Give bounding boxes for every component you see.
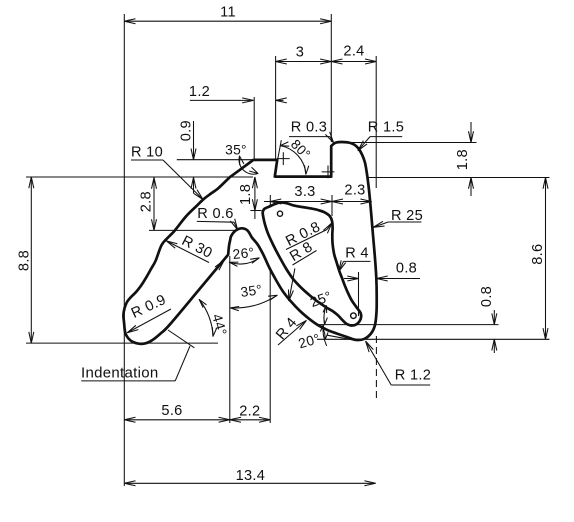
angle 20 bbox=[323, 325, 327, 346]
extension line x=331.3 bbox=[330, 14, 332, 142]
svg-text:Indentation: Indentation bbox=[81, 365, 159, 382]
main profile outline bbox=[123, 142, 376, 344]
svg-text:1.2: 1.2 bbox=[189, 84, 210, 100]
center circle 1 bbox=[277, 211, 282, 216]
extension line x=270.2 bbox=[269, 269, 271, 423]
dim 13.4 bbox=[124, 482, 375, 484]
extension line left x=124.3 bbox=[123, 14, 125, 486]
dim 5.6 and 2.2 bbox=[124, 419, 270, 421]
extension line x=332.0 bbox=[331, 195, 333, 216]
svg-text:R 4: R 4 bbox=[345, 246, 369, 262]
extension line x=254.2 (1.2 left) bbox=[253, 97, 255, 160]
svg-text:0.8: 0.8 bbox=[396, 261, 417, 277]
cross mark 2 bbox=[322, 166, 334, 178]
cross mark 1 bbox=[277, 153, 289, 165]
svg-text:35°: 35° bbox=[225, 143, 247, 158]
svg-text:2.8: 2.8 bbox=[139, 191, 155, 212]
ext line y=159.7 (0.9 top ref) bbox=[177, 159, 254, 161]
ext line y=324.6 (0.8 top ref) bbox=[319, 324, 499, 326]
svg-text:3.3: 3.3 bbox=[294, 184, 315, 200]
ext line y=177.5 right (8.6 top ref) bbox=[368, 177, 550, 179]
dim 11 bbox=[124, 20, 331, 22]
dim 2.8 bbox=[153, 178, 155, 231]
dim 1.8 middle bbox=[254, 177, 256, 219]
svg-text:2.4: 2.4 bbox=[343, 44, 364, 60]
dim 3 and 2.4 bbox=[276, 61, 377, 63]
svg-text:R 1.5: R 1.5 bbox=[368, 120, 404, 136]
svg-text:R 1.2: R 1.2 bbox=[395, 368, 431, 384]
extension line x=229.8 bbox=[229, 256, 231, 423]
dim 3.3 and 2.3 bbox=[264, 201, 372, 203]
svg-text:0.8: 0.8 bbox=[479, 286, 495, 307]
dim 8.6 bbox=[545, 178, 547, 340]
svg-text:3: 3 bbox=[296, 45, 304, 61]
angle 44 bbox=[199, 300, 213, 337]
extension line x=270.3 bbox=[269, 195, 271, 205]
svg-text:1.8: 1.8 bbox=[455, 149, 471, 170]
dim 8.8 bbox=[30, 177, 32, 343]
svg-text:R 10: R 10 bbox=[131, 145, 163, 161]
inner lobe outline bbox=[263, 202, 362, 325]
svg-text:2.3: 2.3 bbox=[344, 183, 365, 199]
angle 35 top bbox=[239, 156, 258, 174]
svg-text:R 0.3: R 0.3 bbox=[291, 120, 327, 136]
angle 26 bbox=[229, 258, 259, 264]
dim 0.8 right bbox=[493, 310, 495, 325]
svg-text:26°: 26° bbox=[232, 245, 255, 262]
angle 80 bbox=[275, 140, 282, 176]
centerline dashed x=376.4 bottom bbox=[375, 336, 377, 400]
dim 0.9 bbox=[193, 121, 195, 160]
svg-text:5.6: 5.6 bbox=[161, 403, 182, 419]
20 deg tangent ref line bbox=[327, 335, 353, 340]
extension line x=358.5 bbox=[358, 272, 360, 316]
ext line y=142.5 right (1.8 top ref) bbox=[352, 142, 477, 144]
svg-text:R 0.6: R 0.6 bbox=[197, 206, 233, 222]
svg-text:8.8: 8.8 bbox=[17, 250, 33, 271]
ext line y=343.1 (8.8 bottom ref) bbox=[26, 342, 218, 344]
dim 0.8 middle bbox=[344, 278, 359, 280]
angle 25 bbox=[324, 306, 326, 325]
dim 1.8 right bbox=[470, 122, 472, 143]
angle 35 mid bbox=[230, 295, 277, 308]
extension line x=376.2 bbox=[375, 56, 377, 188]
svg-text:8.6: 8.6 bbox=[530, 244, 546, 265]
svg-text:0.9: 0.9 bbox=[178, 120, 194, 141]
extension line x=275.6 bbox=[275, 56, 277, 160]
svg-text:13.4: 13.4 bbox=[236, 468, 266, 484]
svg-text:1.8: 1.8 bbox=[238, 184, 254, 205]
ext line y=177 left (8.8 top ref) bbox=[26, 176, 253, 178]
svg-text:35°: 35° bbox=[240, 282, 264, 300]
ext line y=339.3 (8.6/0.8 bottom ref) bbox=[317, 338, 550, 340]
dim 1.2 bbox=[190, 99, 254, 101]
svg-text:2.2: 2.2 bbox=[239, 404, 260, 420]
center circle 2 bbox=[351, 313, 357, 319]
ext tick y=210.5 (1.8 mid bottom ref) bbox=[250, 210, 261, 212]
svg-text:11: 11 bbox=[220, 5, 236, 21]
ext line y=230.4 (2.8 bottom ref) bbox=[149, 229, 238, 231]
